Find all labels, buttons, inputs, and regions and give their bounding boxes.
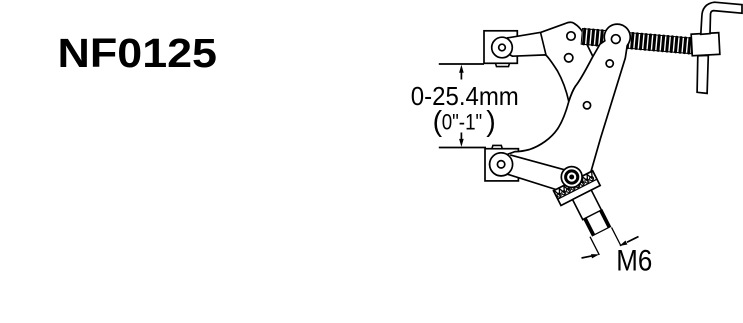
bottom jaw block [485, 149, 518, 181]
lower arm top edge line [510, 155, 564, 170]
lower arm plate P2 [490, 24, 631, 194]
top boss hole [499, 44, 506, 51]
P2 trunnion hole [611, 35, 620, 44]
extension line left of M6 dim [590, 237, 599, 255]
top jaw pad bump [496, 63, 510, 66]
svg-text:): ) [486, 106, 496, 138]
collar thread thick right edge [601, 211, 610, 228]
main pivot washer [561, 167, 582, 188]
bottom jaw pad bump [492, 145, 502, 148]
upper arm plate P1 [505, 22, 593, 101]
knurl sawtooth [555, 172, 595, 196]
svg-text:0"-1": 0"-1" [442, 109, 483, 134]
screw thread band [581, 28, 693, 55]
P2 hole mid [606, 60, 613, 67]
bottom boss hole [497, 161, 504, 168]
M6 dimension arrow left [582, 254, 600, 258]
M6 dimension arrow right [619, 237, 638, 247]
P2 hole low [583, 102, 590, 109]
top jaw boss [492, 37, 513, 58]
knurled stud block group [553, 171, 629, 262]
P1 hole upper [567, 32, 575, 40]
threaded collar [584, 210, 611, 236]
handle screw head block [691, 33, 720, 56]
dimension extension line bottom jaw face [439, 147, 486, 149]
main pivot center dot [569, 175, 574, 180]
main pivot middle ring [566, 171, 578, 183]
plate/arm junction line [541, 32, 547, 55]
svg-text:M6: M6 [616, 245, 652, 278]
P1 hole lower [565, 54, 573, 62]
dimension extension line top jaw face [439, 63, 484, 65]
collar thread thick left edge [585, 218, 594, 235]
svg-text:0-25.4mm: 0-25.4mm [411, 81, 519, 111]
handle bar lower [697, 55, 708, 93]
stud neck [573, 190, 602, 220]
dimension arrow down [459, 133, 464, 147]
top jaw block [484, 31, 517, 64]
dimension arrow up [459, 65, 464, 80]
extension line right of M6 dim [612, 227, 622, 246]
svg-text:NF0125: NF0125 [58, 30, 218, 76]
knurl band boundary line [558, 179, 597, 199]
bottom jaw boss [490, 153, 513, 176]
knurl dot row [556, 176, 594, 198]
knurled block [553, 171, 600, 206]
handle bar upper with bend [701, 2, 742, 34]
